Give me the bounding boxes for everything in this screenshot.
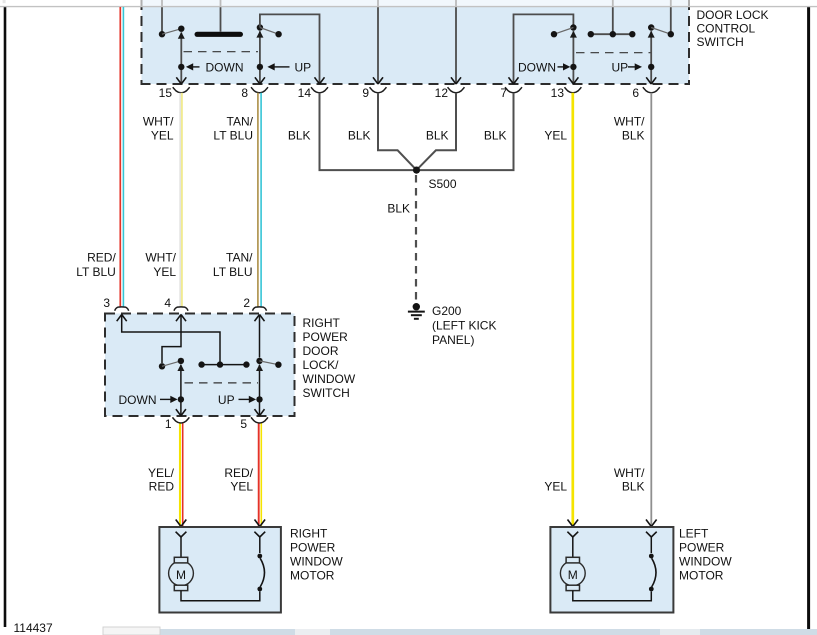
node M2 switch top	[649, 554, 654, 559]
svg-text:DOWN: DOWN	[518, 61, 556, 75]
bottom scrollbar track	[103, 629, 817, 635]
wire U1 pivot to pin 14	[260, 14, 320, 83]
label TAN/LT BLU upper	[213, 115, 253, 143]
node S2 up pivot	[256, 358, 262, 364]
wire U1 up arrow line to pin 8	[255, 31, 265, 84]
label RED/YEL	[224, 466, 253, 494]
svg-text:8: 8	[241, 86, 248, 100]
wire S2 down arrow line to pin 1	[176, 364, 186, 416]
label YEL/RED	[148, 466, 175, 494]
mechanical link U1 window	[184, 51, 259, 53]
arrow into left motor pin A	[568, 520, 579, 527]
svg-text:YEL: YEL	[544, 480, 567, 494]
svg-text:BLK: BLK	[622, 129, 645, 143]
wire U1 pin 12 pass-through	[451, 0, 461, 84]
pin 4 connector	[164, 296, 188, 311]
wire RED/LT BLU from top to pin 3	[120, 7, 123, 307]
svg-text:LT BLU: LT BLU	[76, 265, 116, 279]
svg-text:15: 15	[159, 86, 173, 100]
svg-text:POWER: POWER	[679, 541, 725, 555]
wire RED/YEL pin 5 to right motor	[259, 423, 262, 526]
svg-text:DOOR LOCK: DOOR LOCK	[697, 8, 769, 22]
svg-text:TAN/: TAN/	[226, 251, 253, 265]
page left border	[4, 7, 7, 627]
pin 1 connector	[165, 417, 189, 431]
svg-text:MOTOR: MOTOR	[679, 569, 724, 583]
label RED/LT BLU	[76, 251, 116, 280]
node U1 lock UP position	[648, 64, 654, 70]
switch blade U1 window up	[260, 28, 279, 35]
svg-text:YEL: YEL	[544, 129, 567, 143]
pin 5 connector	[240, 417, 268, 431]
svg-text:WINDOW: WINDOW	[303, 372, 356, 386]
pin 14 connector	[298, 86, 328, 100]
svg-text:4: 4	[164, 296, 171, 310]
switch S2 RIGHT POWER DOOR LOCK/WINDOW SWITCH box	[105, 314, 295, 417]
svg-text:RIGHT: RIGHT	[290, 527, 328, 541]
label S2 UP with pointer	[218, 393, 256, 407]
pin 9 connector	[362, 86, 386, 100]
svg-text:RED: RED	[149, 480, 175, 494]
svg-text:3: 3	[103, 296, 110, 310]
wire BLK pin 7 to S500	[420, 93, 514, 170]
arrow pin14 box exit	[315, 77, 325, 84]
svg-text:LOCK/: LOCK/	[303, 358, 340, 372]
label WHT/BLK upper	[614, 115, 645, 143]
svg-text:(LEFT KICK: (LEFT KICK	[432, 319, 496, 333]
svg-text:BLK: BLK	[426, 129, 449, 143]
svg-text:9: 9	[362, 86, 369, 100]
mechanical link S2	[185, 382, 259, 384]
node U1 window pivot	[159, 31, 165, 37]
M1 pin A connector	[176, 532, 187, 558]
svg-text:14: 14	[298, 86, 312, 100]
wire S2 up arrow line to pin 5	[255, 364, 265, 416]
svg-text:POWER: POWER	[303, 330, 349, 344]
pin 2 connector	[243, 296, 266, 311]
arrow into right motor pin B	[255, 520, 266, 527]
svg-text:LT BLU: LT BLU	[213, 265, 253, 279]
wire S2 pin 3 to common bar	[117, 315, 220, 362]
svg-text:S500: S500	[429, 177, 457, 191]
bottom scrollbar segment 2	[295, 629, 330, 635]
node U1 window down contact	[178, 26, 184, 32]
node S2 down pivot	[159, 363, 165, 369]
wire S2 pin 2 to up pivot	[255, 315, 265, 358]
node U1 UP position	[257, 64, 263, 70]
M1 label RIGHT POWER WINDOW MOTOR	[290, 527, 343, 583]
svg-text:BLK: BLK	[387, 202, 410, 216]
svg-text:WHT/: WHT/	[145, 251, 176, 265]
svg-text:SWITCH: SWITCH	[697, 35, 744, 49]
switch U1 DOOR LOCK CONTROL SWITCH box	[141, 0, 691, 84]
wire YEL pin 13 to left motor	[571, 93, 574, 526]
svg-text:M: M	[568, 568, 578, 582]
pin 12 connector	[435, 86, 465, 100]
page right border	[807, 7, 810, 633]
label U1 UP with pointer	[267, 61, 311, 75]
svg-text:CONTROL: CONTROL	[697, 22, 756, 36]
svg-text:RED/: RED/	[224, 466, 253, 480]
node S2 UP position	[256, 396, 262, 402]
motor M2 LEFT POWER WINDOW MOTOR box	[550, 527, 673, 613]
node U1 DOWN position	[178, 64, 184, 70]
node U1 lock up contact with stub	[668, 0, 674, 37]
switch blade U1 lock down	[554, 28, 573, 35]
header fade overlay	[0, 0, 817, 6]
contact bar U1 lock common	[588, 0, 636, 37]
svg-text:PANEL): PANEL)	[432, 333, 474, 347]
svg-text:RIGHT: RIGHT	[303, 316, 341, 330]
node S2 DOWN position	[178, 396, 184, 402]
motor M1 RIGHT POWER WINDOW MOTOR box	[159, 527, 281, 613]
node U1 window up pivot	[257, 24, 263, 30]
M2 pin A connector	[567, 532, 578, 558]
M2 contact arc	[652, 558, 656, 587]
contact bar U1 window common	[195, 0, 244, 37]
wire BLK pin 12 to S500	[417, 93, 457, 170]
node U1 lock down pivot	[551, 31, 557, 37]
svg-text:YEL: YEL	[151, 129, 174, 143]
U1 label DOOR LOCK CONTROL SWITCH	[697, 8, 769, 49]
label G200 LEFT KICK PANEL	[432, 304, 496, 347]
svg-text:POWER: POWER	[290, 541, 336, 555]
wire M1 bottom loop	[181, 591, 260, 601]
svg-text:1: 1	[165, 417, 172, 431]
S2 label RIGHT POWER DOOR LOCK/WINDOW SWITCH	[303, 316, 356, 400]
svg-text:BLK: BLK	[288, 129, 311, 143]
svg-text:WHT/: WHT/	[143, 115, 174, 129]
svg-text:UP: UP	[612, 61, 629, 75]
svg-text:DOWN: DOWN	[206, 61, 244, 75]
svg-text:UP: UP	[295, 61, 312, 75]
wire S2 pin 4 to down pivot	[162, 315, 186, 364]
node U1 lock down contact	[570, 24, 576, 30]
wire WHT/YEL pin 15 to pin 4	[179, 93, 181, 307]
svg-text:13: 13	[551, 86, 565, 100]
wire U1 window common stub	[161, 0, 163, 32]
switch blade U1 window down	[162, 29, 181, 35]
label U1 DOWN with pointer	[186, 61, 244, 75]
svg-text:BLK: BLK	[622, 480, 645, 494]
svg-text:12: 12	[435, 86, 449, 100]
node S2 down contact	[178, 358, 184, 364]
switch blade S2 down	[162, 361, 181, 366]
ground G200	[408, 303, 425, 319]
pin 3 connector	[103, 296, 128, 311]
wire U1 lock down arrow line to pin 13	[568, 31, 578, 84]
motor M1 symbol	[169, 557, 194, 590]
wire M2 bottom loop	[573, 591, 652, 601]
svg-text:WINDOW: WINDOW	[679, 555, 732, 569]
splice S500	[413, 167, 420, 174]
M1 pin B connector	[254, 532, 265, 553]
svg-text:M: M	[176, 568, 186, 582]
svg-text:UP: UP	[218, 393, 235, 407]
wire YEL/RED pin 1 to right motor	[180, 423, 183, 526]
svg-text:G200: G200	[432, 304, 462, 318]
pin 8 connector	[241, 86, 268, 100]
svg-text:YEL: YEL	[230, 480, 253, 494]
wire TAN/LT BLU pin 8 to pin 2	[258, 93, 261, 307]
svg-text:RED/: RED/	[87, 251, 116, 265]
mechanical link U1 lock	[576, 52, 651, 54]
node U1 lock up pivot	[648, 24, 654, 30]
svg-text:BLK: BLK	[484, 129, 507, 143]
bottom scrollbar segment 3	[660, 629, 700, 635]
switch blade U1 lock up	[651, 28, 671, 35]
bottom scrollbar segment 1	[103, 627, 160, 635]
label U1 lock UP with pointer	[612, 61, 643, 75]
svg-text:DOWN: DOWN	[119, 393, 157, 407]
svg-text:WHT/: WHT/	[614, 466, 645, 480]
motor M2 symbol	[560, 557, 585, 590]
M2 pin B connector	[646, 532, 657, 553]
wire BLK dashed S500 to G200	[415, 175, 417, 301]
label WHT/YEL lower	[145, 251, 176, 280]
pin 15 connector	[159, 86, 190, 100]
svg-text:WHT/: WHT/	[614, 115, 645, 129]
page top rule	[0, 6, 817, 8]
svg-text:TAN/: TAN/	[227, 115, 254, 129]
M2 label LEFT POWER WINDOW MOTOR	[679, 527, 732, 583]
node M1 switch top	[257, 554, 262, 559]
switch blade S2 up	[260, 361, 279, 365]
wire U1 lock section to pin 7	[509, 14, 574, 84]
svg-text:DOOR: DOOR	[303, 344, 339, 358]
svg-text:LEFT: LEFT	[679, 527, 709, 541]
svg-text:MOTOR: MOTOR	[290, 569, 335, 583]
wire BLK pin 9 to S500	[378, 93, 417, 170]
node U1 window up contact	[275, 31, 281, 37]
arrow into left motor pin B	[646, 520, 657, 527]
node M1 switch bottom	[257, 587, 262, 592]
wire WHT/BLK pin 6 to left motor	[650, 93, 652, 526]
svg-text:SWITCH: SWITCH	[303, 386, 350, 400]
label WHT/BLK lower	[614, 466, 645, 494]
svg-text:6: 6	[632, 86, 639, 100]
node S2 up contact	[275, 362, 281, 368]
wire U1 down arrow line to pin 15	[176, 32, 186, 84]
svg-text:WINDOW: WINDOW	[290, 555, 343, 569]
contact bar S2 common	[198, 361, 249, 367]
node U1 lock DOWN position	[570, 64, 576, 70]
svg-text:YEL: YEL	[153, 265, 176, 279]
svg-text:BLK: BLK	[348, 129, 371, 143]
wire U1 lock up arrow line to pin 6	[646, 31, 656, 84]
svg-text:LT BLU: LT BLU	[213, 129, 253, 143]
pin 13 connector	[551, 86, 582, 100]
svg-text:5: 5	[240, 417, 247, 431]
M1 contact arc	[260, 558, 264, 587]
wire BLK pin 14 to S500	[320, 93, 414, 170]
svg-text:114437: 114437	[14, 621, 53, 635]
svg-text:YEL/: YEL/	[148, 466, 175, 480]
arrow into right motor pin A	[176, 520, 187, 527]
label WHT/YEL upper	[143, 115, 174, 143]
label TAN/LT BLU lower	[213, 251, 253, 280]
pin 7 connector	[500, 86, 522, 100]
label S2 DOWN with pointer	[119, 393, 178, 407]
svg-text:2: 2	[243, 296, 250, 310]
pin 6 connector	[632, 86, 659, 100]
label U1 lock DOWN with pointer	[518, 61, 570, 75]
node M2 switch bottom	[649, 587, 654, 592]
wire U1 pin 9 pass-through	[373, 0, 383, 84]
svg-text:7: 7	[500, 86, 507, 100]
